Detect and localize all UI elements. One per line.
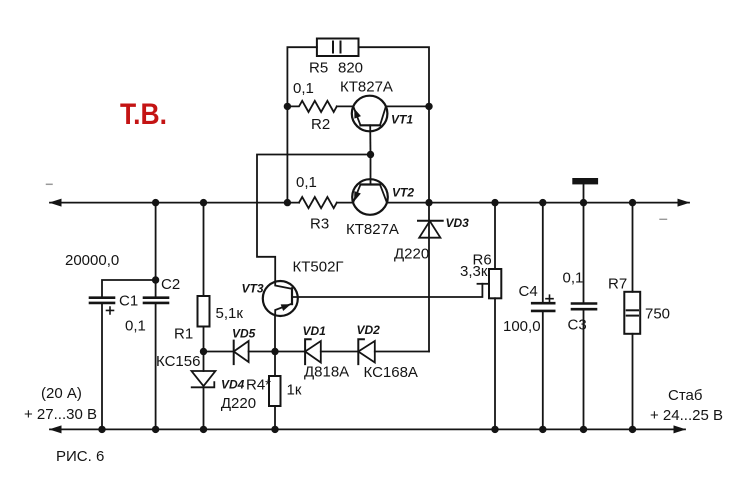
wire R6 bottom (494, 298, 496, 429)
svg-text:VD4: VD4 (221, 378, 245, 392)
wire R7 branch top (632, 203, 634, 292)
svg-text:РИС. 6: РИС. 6 (56, 448, 104, 465)
artifact dash right (660, 218, 667, 220)
wire VT3 emitter branch (274, 315, 276, 351)
wire bottom rail (50, 428, 685, 430)
wire R2 to VT1 emitter (337, 105, 354, 107)
wire C2 bottom (155, 303, 157, 430)
wire R4 bottom (274, 406, 276, 429)
junction R2 left node (284, 103, 291, 110)
wire C2 branch top (155, 203, 157, 298)
svg-text:750: 750 (645, 306, 670, 323)
capacitor C3 plates (572, 302, 596, 305)
wire C4 bottom (542, 311, 544, 430)
transistor VT3 КТ502Г (263, 281, 298, 316)
wire VT3 collector link to bases (257, 155, 371, 282)
svg-text:0,1: 0,1 (296, 174, 317, 191)
svg-text:КС168А: КС168А (364, 364, 418, 381)
svg-text:C4: C4 (519, 283, 538, 300)
junction C4 top rail (539, 199, 546, 206)
junction C3 bottom rail (580, 426, 587, 433)
svg-text:5,1к: 5,1к (216, 305, 244, 322)
wire VD1 to VD2 (321, 351, 359, 353)
svg-text:0,1: 0,1 (293, 80, 314, 97)
diode VD5 (233, 341, 235, 365)
resistor R4 box (269, 376, 281, 406)
wire VT1 collector to right ladder (386, 105, 429, 107)
svg-text:100,0: 100,0 (503, 318, 541, 335)
svg-text:R4*: R4* (246, 377, 271, 394)
junction left ladder rail (284, 199, 291, 206)
junction VD4 bottom rail (200, 426, 207, 433)
svg-text:VT1: VT1 (391, 113, 413, 127)
junction VT1 base VT2 base (367, 151, 374, 158)
svg-text:+ 24...25 В: + 24...25 В (650, 407, 723, 424)
wire R5 right to right ladder (359, 47, 430, 351)
svg-text:VT2: VT2 (392, 186, 414, 200)
resistor R7 box (624, 292, 640, 334)
wire R6 tap (478, 283, 490, 285)
resistor R7 power marks (627, 309, 638, 311)
svg-text:+ 27...30 В: + 27...30 В (24, 406, 97, 423)
resistor R6 box (489, 269, 501, 298)
arrow input rail left end (49, 199, 62, 207)
wire R6 branch top (494, 203, 496, 269)
wire left ladder vertical (287, 47, 317, 202)
junction C3 top rail (580, 199, 587, 206)
svg-text:1к: 1к (287, 382, 302, 399)
arrow bottom rail right end (674, 425, 687, 433)
junction R1 top rail (200, 199, 207, 206)
resistor R3 zigzag (299, 197, 337, 208)
svg-text:VD5: VD5 (232, 327, 256, 341)
svg-text:Стаб: Стаб (668, 387, 702, 404)
junction C1 top link (152, 276, 159, 283)
junction C2 top rail (152, 199, 159, 206)
svg-text:0,1: 0,1 (563, 270, 584, 287)
resistor R5 power marks (332, 42, 334, 53)
wire VD5 to node VT3 emitter (249, 351, 306, 353)
capacitor C4 plates (532, 302, 554, 305)
wire chassis stub (583, 184, 585, 202)
arrow bottom rail left end (49, 425, 62, 433)
svg-text:Д818А: Д818А (304, 364, 349, 381)
junction C4 bottom rail (539, 426, 546, 433)
svg-text:Д220: Д220 (221, 395, 256, 412)
capacitor C2 plates (144, 296, 168, 299)
resistor R4* branch wire (274, 352, 276, 377)
chassis bar (572, 178, 598, 184)
svg-text:R1: R1 (174, 326, 193, 343)
wire R1 bottom to node (203, 327, 205, 372)
wire C3 branch top (583, 203, 585, 304)
resistor R2 zigzag (287, 101, 336, 112)
svg-text:820: 820 (338, 60, 363, 77)
wire C1 bottom (101, 303, 103, 430)
zener VD1 Д818А (305, 339, 311, 364)
wire R7 bottom (632, 334, 634, 430)
artifact dash left (47, 183, 53, 185)
zener VD4 КС156 (192, 371, 216, 386)
junction R6 bottom rail (491, 426, 498, 433)
capacitor C1 polarity + (107, 307, 114, 314)
junction VT3 emitter VD5 VD1 (271, 348, 278, 355)
wire C3 bottom (583, 309, 585, 429)
arrow output rail right end (678, 199, 691, 207)
svg-text:R2: R2 (311, 116, 330, 133)
svg-text:VT3: VT3 (242, 282, 264, 296)
diode VD3 Д220 (418, 220, 443, 222)
wire R3 to VT2 emitter (337, 202, 353, 204)
junction C2 bottom rail (152, 426, 159, 433)
wire R1 branch top (203, 203, 205, 296)
svg-text:R7: R7 (608, 276, 627, 293)
svg-text:VD3: VD3 (446, 216, 470, 230)
svg-text:(20 А): (20 А) (41, 385, 82, 402)
capacitor C1 plates (90, 296, 114, 299)
svg-text:3,3к: 3,3к (460, 263, 488, 280)
svg-text:20000,0: 20000,0 (65, 252, 119, 269)
svg-text:Д220: Д220 (394, 246, 429, 263)
junction R6 top rail (491, 199, 498, 206)
svg-text:0,1: 0,1 (125, 318, 146, 335)
transistor VT1 КТ827А (352, 96, 388, 132)
svg-text:C3: C3 (568, 317, 587, 334)
junction VT1 collector right ladder (425, 103, 432, 110)
svg-text:КТ827А: КТ827А (346, 221, 399, 238)
zener VD2 КС168А (358, 339, 364, 364)
wire input rail left segment (50, 202, 299, 204)
svg-text:R3: R3 (310, 216, 329, 233)
wire node R1 to VD5 (204, 351, 234, 353)
svg-text:КТ827А: КТ827А (340, 79, 393, 96)
transistor VT2 КТ827А (352, 179, 388, 215)
svg-text:C2: C2 (161, 276, 180, 293)
svg-text:R5: R5 (309, 60, 328, 77)
junction right ladder rail (425, 199, 432, 206)
svg-text:КТ502Г: КТ502Г (293, 259, 344, 276)
svg-text:КС156: КС156 (156, 353, 200, 370)
wire VD4 bottom (203, 387, 205, 429)
svg-text:VD1: VD1 (303, 324, 327, 338)
resistor R5 box (317, 39, 359, 57)
junction R4 bottom rail (271, 426, 278, 433)
svg-text:VD2: VD2 (357, 323, 381, 337)
wire VD2 to right ladder corner (375, 351, 429, 353)
capacitor C4 polarity + (546, 295, 553, 302)
wire VT3 base to R6 tap (292, 284, 482, 297)
capacitor C1 wire top link (102, 280, 156, 298)
svg-text:Т.В.: Т.В. (120, 98, 167, 131)
junction R1 bottom VD5 (200, 348, 207, 355)
junction R7 top rail (629, 199, 636, 206)
junction R7 bottom rail (629, 426, 636, 433)
resistor R1 box (198, 296, 210, 327)
svg-text:C1: C1 (119, 293, 138, 310)
junction C1 bottom rail (98, 426, 105, 433)
wire C4 branch top (542, 203, 544, 304)
wire VT2 collector to output rail (387, 202, 689, 204)
